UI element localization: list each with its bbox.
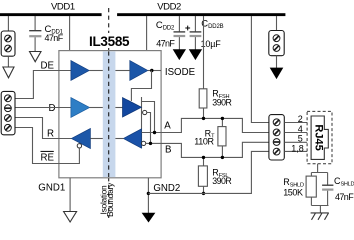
wire bottom node to earth xyxy=(319,206,321,213)
svg-text:ISODE: ISODE xyxy=(165,67,196,78)
inverting input bubble (receiver) xyxy=(142,141,146,145)
wire A line (chip) xyxy=(142,132,162,134)
wire VDD2 rail to capacitor CDD2B xyxy=(194,16,196,31)
wire A to termination top bus xyxy=(161,118,269,132)
terminal block J1 (VDD1/GND1 input) xyxy=(1,31,15,56)
svg-text:150K: 150K xyxy=(283,187,303,197)
capacitor CDD2 47nF xyxy=(174,32,186,50)
svg-text:VDD2: VDD2 xyxy=(157,2,181,13)
wire driver output to A line xyxy=(142,102,155,133)
wire VDD2 rail to chip VDD2 pin xyxy=(146,16,148,51)
svg-text:R: R xyxy=(47,128,54,139)
wire J4 pin3 to RJ45 pin 5 xyxy=(284,141,307,143)
svg-text:GND2: GND2 xyxy=(153,183,180,194)
svg-text:2: 2 xyxy=(298,114,303,124)
svg-text:VDD1: VDD1 xyxy=(51,2,75,13)
isolation boundary rotated label xyxy=(98,182,115,217)
svg-text:110R: 110R xyxy=(194,137,214,147)
junction RFSH/top bus xyxy=(202,117,205,120)
capacitor CSHLD 47nF xyxy=(322,173,333,206)
svg-text:47nF: 47nF xyxy=(45,33,64,43)
driver output bar (A node) xyxy=(141,97,143,148)
isolation boundary dashed line (through chip) xyxy=(108,51,110,177)
wire J4 pin2 to RJ45 pin 4 xyxy=(284,132,307,134)
junction node on ISODE line xyxy=(150,69,153,72)
wire VDD2 rail to terminal J2 xyxy=(276,16,278,31)
isolation boundary dashed line (lower segment) xyxy=(108,48,110,218)
svg-text:RE: RE xyxy=(41,152,55,163)
svg-text:D: D xyxy=(49,103,56,114)
resistor RT 110R xyxy=(218,118,226,157)
svg-text:5: 5 xyxy=(298,133,303,143)
capacitor CDD2B 10uF xyxy=(190,32,202,50)
wire receiver output to barrier xyxy=(115,138,123,140)
wire GND2 net to shield xyxy=(148,151,269,193)
svg-text:47nF: 47nF xyxy=(335,192,354,202)
junction node B xyxy=(149,142,152,145)
buffer ISODE (right) xyxy=(130,61,148,81)
wire chip GND2 pin to ground xyxy=(147,178,149,213)
wire VDD2 rail to resistor RFSH xyxy=(203,16,205,89)
shield network top node xyxy=(311,172,327,174)
ground GND1 (hollow triangle) xyxy=(64,212,77,223)
wire D buffer to barrier xyxy=(90,107,103,109)
wire R output xyxy=(15,118,71,139)
buffer D (left) xyxy=(71,98,90,118)
wire DE input xyxy=(15,71,71,99)
wire VDD2 rail to capacitor CDD2 xyxy=(178,16,180,31)
wire B to termination bottom bus xyxy=(161,142,269,157)
enable bubble on R buffer xyxy=(77,144,81,148)
buffer DE (left) xyxy=(71,61,89,81)
polarity plus sign CDD2B xyxy=(185,26,190,31)
wire R buffer from barrier xyxy=(90,138,102,140)
junction GND2 net xyxy=(147,192,150,195)
wire driver inverting output to B line xyxy=(147,113,151,144)
junction node A xyxy=(153,131,156,134)
wire DE buffer to barrier xyxy=(89,70,103,72)
ground for CDD2 (filled triangle) xyxy=(173,50,185,60)
ground GND2 for J2 (filled triangle) xyxy=(270,68,282,78)
svg-text:IL3585: IL3585 xyxy=(89,34,130,49)
wire barrier to ISODE buffer xyxy=(115,70,129,72)
isolation barrier band xyxy=(103,51,116,177)
terminal block J2 (VDD2/GND2 input) xyxy=(269,31,284,56)
svg-text:390R: 390R xyxy=(212,98,231,108)
ground GND1 symbol (hollow triangle) xyxy=(3,67,14,78)
buffer R (left, pointing left) xyxy=(71,128,90,148)
shield network bottom node xyxy=(311,205,328,207)
svg-text:1,8: 1,8 xyxy=(291,144,304,154)
ground for CDD1 (hollow triangle) xyxy=(30,52,42,62)
terminal block J3 (DE D R RE) xyxy=(1,91,15,134)
svg-text:390R: 390R xyxy=(212,176,231,186)
receiver (right, pointing left) xyxy=(123,129,141,148)
inverting output bubble (driver) xyxy=(143,110,147,114)
wire B line (chip) xyxy=(146,142,161,144)
resistor RFSH 390R xyxy=(199,89,207,119)
driver (right, transmits to line) xyxy=(123,98,142,118)
wire ISODE buffer to chip edge xyxy=(148,70,161,72)
wire chip GND1 pin to ground xyxy=(69,178,71,212)
svg-text:Boundary: Boundary xyxy=(105,182,115,217)
svg-text:A: A xyxy=(164,121,171,132)
wire barrier to driver input xyxy=(115,107,122,109)
power rail VDD1 xyxy=(0,13,102,16)
junction RT/bottom bus xyxy=(221,156,224,159)
wire VDD1 rail to chip VDD1 pin xyxy=(69,16,71,51)
resistor RSHLD 150K xyxy=(306,173,316,206)
wire D input xyxy=(15,107,71,109)
wire RE input to R buffer enable xyxy=(15,128,79,164)
ground GND2 (filled triangle) xyxy=(142,213,154,222)
resistor RFSL 390R xyxy=(198,157,207,193)
svg-text:GND1: GND1 xyxy=(38,183,65,194)
ground for CDD2B (filled triangle) xyxy=(190,50,202,60)
wire terminal J2 to ground xyxy=(276,56,278,68)
power rail VDD2 xyxy=(117,13,285,16)
wire RJ45 shield to RSHLD/CSHLD xyxy=(317,164,319,173)
wire VDD1 rail to terminal J1 xyxy=(7,16,9,31)
svg-text:B: B xyxy=(165,144,171,155)
earth ground (chassis) xyxy=(311,213,329,220)
junction RFSL/GND2 net xyxy=(202,192,205,195)
connector RJ45 (dashed outline) xyxy=(307,111,332,163)
chip IL3585 body xyxy=(59,51,161,178)
junction RFSL/bottom bus xyxy=(202,156,205,159)
capacitor CDD1 47nF xyxy=(29,31,41,52)
svg-text:RJ45: RJ45 xyxy=(312,124,324,150)
wire J4 pin4 to RJ45 pins 1,8 xyxy=(284,150,307,152)
wire VDD1 rail to capacitor CDD1 xyxy=(34,16,36,30)
wire ISODE node to driver enable xyxy=(131,71,151,102)
connector RJ45 jack body xyxy=(311,116,328,159)
wire terminal J1 to ground xyxy=(7,56,9,67)
junction RT/top bus xyxy=(221,117,224,120)
wire J4 pin1 to RJ45 pin 2 xyxy=(284,122,307,124)
svg-text:47nF: 47nF xyxy=(156,39,175,49)
wire VDD2 rail to RJ45 pin2 feed xyxy=(251,16,269,123)
terminal block J4 (bus side) xyxy=(269,115,284,160)
isolation boundary dashed line (upper segment) xyxy=(108,8,110,33)
